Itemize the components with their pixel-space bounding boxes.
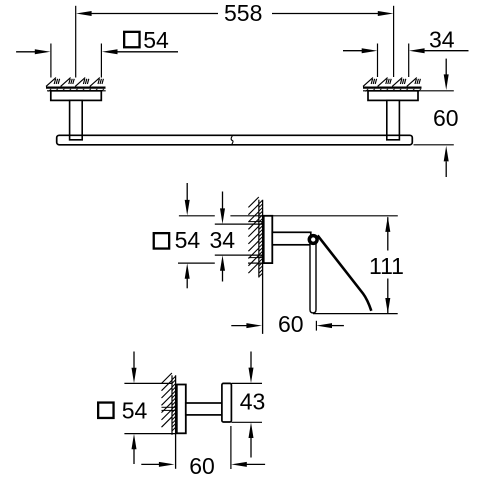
svg-text:34: 34 <box>429 27 455 53</box>
wire dim-111 bottom segment <box>387 279 389 314</box>
svg-text:54: 54 <box>143 27 169 53</box>
plate side middle <box>264 216 273 263</box>
arrow dim-60m right <box>316 323 332 328</box>
arrow dim-60m left <box>246 323 262 328</box>
swing arm diagonal <box>318 235 372 310</box>
wire centerline left post <box>75 6 77 78</box>
wire wall back line middle <box>258 200 260 278</box>
arrow dim-111 bottom <box>385 298 390 314</box>
arm bottom <box>186 403 222 415</box>
wire wall face line bottom <box>175 375 177 469</box>
wire wall back line bottom <box>171 375 173 435</box>
hook front <box>222 383 232 422</box>
hatch ticks wall middle <box>259 201 262 277</box>
wire ext bottom-tip <box>313 313 398 315</box>
hatch wall right mount <box>363 78 420 87</box>
wire dim-60m right tail <box>330 325 344 327</box>
arrow dim-54 right <box>102 49 118 54</box>
wire ext hook plate-bottom <box>124 433 176 435</box>
arrow dim-54b bottom <box>132 434 137 450</box>
wire ext hole-top <box>215 223 263 225</box>
arrow dim-34m top <box>220 208 225 224</box>
post right bottom inside bar <box>387 136 400 140</box>
arrow dim-60 top <box>444 74 449 90</box>
arm middle <box>272 232 311 245</box>
arrow dim-34m bottom <box>220 255 225 271</box>
wire ext hook-top <box>232 382 263 384</box>
arrow dim-54m bottom <box>185 263 190 279</box>
post left bottom inside bar <box>70 136 83 140</box>
wire wall surface right extended <box>363 90 454 92</box>
hatch ticks wall bottom <box>172 377 175 431</box>
wire ext plate-bottom right <box>248 262 264 264</box>
hatch ticks left mount <box>49 89 105 92</box>
wire wall face line middle <box>262 200 264 334</box>
wire dim-54m bottom shaft <box>186 277 188 288</box>
wire wall baseline left <box>46 86 106 88</box>
arrow dim-43 top <box>249 368 254 384</box>
wire bar-bottom ext <box>414 144 454 146</box>
wire hole mark top middle <box>249 221 263 223</box>
svg-text:54: 54 <box>175 227 201 253</box>
arrow dim-34 right <box>409 48 425 53</box>
wire ext line flange-left <box>377 44 379 78</box>
wire hole mark top bottom-drawing <box>162 406 177 408</box>
arrow dim-111 top <box>385 216 390 232</box>
wire hole mark bottom middle <box>249 257 263 259</box>
wire dim-54 leader <box>116 51 178 53</box>
wire wall baseline right <box>363 86 422 88</box>
svg-text:54: 54 <box>122 398 148 424</box>
svg-text:60: 60 <box>278 311 304 337</box>
post right <box>387 100 400 139</box>
arrow dim-43 bottom <box>249 422 254 438</box>
hatch wall bottom <box>162 373 172 427</box>
svg-text:43: 43 <box>240 388 266 414</box>
wire dim-111 top segment <box>387 217 389 250</box>
wire dim-558 line right segment <box>272 13 382 15</box>
wire dim-60 bottom shaft <box>445 162 447 178</box>
pivot circle <box>309 236 317 244</box>
wire dim-558 line left segment <box>91 13 218 15</box>
wire dim-34m bottom shaft <box>222 269 224 282</box>
wire dim-54b top shaft <box>133 352 135 370</box>
svg-text:558: 558 <box>224 0 262 26</box>
arrow dim-558 right <box>378 11 394 16</box>
arrow dim-558 left <box>76 11 92 16</box>
wire dim-60m tip tick <box>315 321 317 331</box>
post left <box>70 100 83 139</box>
wire ext plate-bottom left <box>178 262 215 264</box>
plate right mount <box>368 91 418 101</box>
svg-text:60: 60 <box>433 105 459 131</box>
wire ext line plate-right <box>100 44 102 78</box>
towel bar <box>57 135 413 145</box>
wire dim-34 leader <box>423 50 469 52</box>
wire dim-60 top shaft <box>445 59 447 77</box>
arrow dim-54 left <box>35 49 51 54</box>
hatch wall middle <box>248 197 258 273</box>
wire ext hook plate-top <box>124 382 171 384</box>
wire dim-43 top shaft <box>250 352 252 370</box>
svg-text:60: 60 <box>189 453 215 479</box>
arrow dim-60 bottom <box>444 146 449 162</box>
wire dim-54 left tail <box>16 51 36 53</box>
wire dim-43 bottom shaft <box>250 436 252 457</box>
wire centerline right post <box>393 6 395 77</box>
wire ext line flange-right <box>408 44 410 78</box>
arrow dim-54b top <box>132 368 137 384</box>
square symbol top <box>124 32 139 47</box>
wire ext hole-bottom <box>215 254 263 256</box>
break mark on bar <box>231 136 233 146</box>
wire dim-34m top shaft <box>222 192 224 211</box>
wire dim-60b left tail <box>141 463 161 465</box>
square symbol middle <box>154 233 169 248</box>
arrow dim-34 left <box>362 48 378 53</box>
arrow dim-60b right <box>231 462 247 467</box>
wire ext hook-bottom <box>232 421 263 423</box>
wire ext hook-right vertical <box>230 426 232 469</box>
square symbol bottom <box>98 403 113 418</box>
wire dim-60b right tail <box>245 463 265 465</box>
wire dim-60m left tail <box>231 325 248 327</box>
hatch wall left mount <box>46 78 103 87</box>
plate left mount <box>51 91 102 101</box>
wire dim-54m top shaft <box>186 183 188 202</box>
plate side bottom <box>177 385 186 434</box>
arrow dim-60b left <box>159 462 175 467</box>
wire ext line plate-left <box>50 44 52 78</box>
svg-text:111: 111 <box>369 253 404 279</box>
wire hole mark bottom bottom-drawing <box>162 409 177 411</box>
wire ext plate-top long segment <box>230 215 397 217</box>
wire dim-34 left tail <box>343 50 364 52</box>
wire wall surface left <box>47 90 106 92</box>
roll holder front bar <box>310 243 316 313</box>
svg-text:34: 34 <box>210 227 236 253</box>
wire dim-54b bottom shaft <box>133 447 135 464</box>
arrow dim-54m top <box>185 200 190 216</box>
hatch ticks right mount <box>366 89 422 92</box>
wire ext plate-top left segment <box>179 215 215 217</box>
